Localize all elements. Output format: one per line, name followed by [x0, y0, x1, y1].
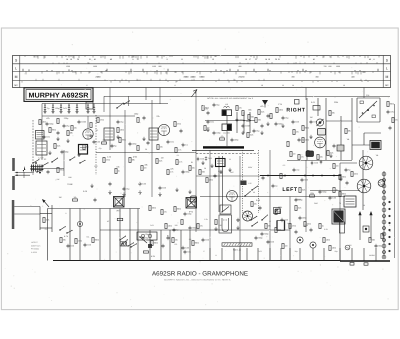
note text line	[207, 97, 253, 100]
subtitle murphy radio ltd	[164, 278, 232, 281]
value label 33k	[144, 164, 147, 167]
wire dial drop 2	[145, 88, 147, 101]
capacitor C15	[47, 170, 50, 174]
ground GC2	[51, 110, 54, 114]
wire grid bus	[42, 115, 135, 117]
svg-text:47k: 47k	[220, 135, 223, 138]
svg-text:0.01: 0.01	[187, 251, 191, 254]
electrolytic C53	[77, 221, 82, 226]
capacitor C64	[111, 144, 118, 148]
switch S2a	[32, 159, 39, 164]
resistor R82	[333, 164, 339, 169]
capacitor C32	[387, 110, 395, 114]
gang dashed vertical 1	[242, 150, 244, 213]
svg-text:2.2k: 2.2k	[107, 155, 111, 158]
resistor R10	[115, 169, 120, 174]
svg-text:2.2k: 2.2k	[310, 152, 314, 155]
svg-text:500p: 500p	[278, 123, 282, 126]
band letters left	[14, 59, 18, 87]
capacitor C88	[189, 226, 197, 230]
svg-text:47k: 47k	[46, 117, 49, 120]
wire speaker to circuit	[14, 207, 40, 231]
value label 47k	[170, 168, 173, 171]
capacitor C46	[267, 240, 274, 244]
svg-text:14: 14	[292, 84, 294, 87]
capacitor C23	[261, 124, 264, 128]
resistor R30	[290, 152, 296, 157]
svg-text:C30: C30	[218, 224, 221, 227]
resistor R86	[310, 192, 315, 197]
junction J3	[249, 120, 251, 122]
value label V4	[376, 154, 379, 157]
svg-text:1300: 1300	[93, 65, 97, 68]
resistor R55	[92, 238, 99, 243]
svg-text:0.01: 0.01	[208, 157, 212, 160]
capacitor C74	[253, 129, 261, 133]
svg-text:6: 6	[87, 84, 88, 87]
AC source symbol	[345, 245, 350, 250]
valve V3 IF amplifier	[227, 191, 238, 202]
tuning gang bar	[203, 146, 244, 148]
capacitor C36	[346, 181, 349, 185]
resistor R8	[57, 168, 64, 173]
value label 470k	[278, 206, 282, 209]
svg-text:C2: C2	[52, 104, 54, 107]
valve base V4 base	[359, 156, 373, 170]
svg-text:330p: 330p	[378, 245, 382, 248]
svg-text:470k: 470k	[78, 240, 82, 243]
capacitor C83	[237, 218, 240, 222]
resistor R91	[319, 224, 324, 229]
resistor R61	[49, 128, 56, 133]
svg-text:GRAM: GRAM	[295, 198, 301, 201]
svg-text:33k: 33k	[144, 164, 147, 167]
wire switch riser	[63, 150, 65, 176]
svg-text:330p: 330p	[185, 171, 189, 174]
svg-text:820k: 820k	[177, 208, 181, 211]
svg-text:0.1: 0.1	[185, 144, 188, 147]
svg-text:820k: 820k	[154, 242, 158, 245]
switch S13	[79, 160, 85, 164]
svg-text:25: 25	[269, 220, 271, 223]
capacitor C90	[184, 250, 191, 254]
svg-text:56k: 56k	[248, 109, 251, 112]
value label 100p	[134, 112, 139, 115]
capacitor C87	[173, 228, 180, 232]
wire far-right frame	[357, 98, 380, 122]
svg-text:820k: 820k	[305, 127, 309, 130]
ground GC1	[43, 110, 46, 114]
IF transformer L2	[36, 141, 47, 155]
svg-text:PR 55032: PR 55032	[31, 248, 39, 251]
svg-text:500p: 500p	[322, 191, 326, 194]
top right box diagonal	[359, 101, 377, 118]
capacitor C22	[242, 124, 250, 128]
value label 1M	[310, 116, 313, 119]
resistor R66	[102, 139, 107, 144]
oscillator can dark border	[216, 159, 226, 167]
resistor R11	[129, 158, 135, 163]
valve base V5 base	[357, 179, 371, 193]
ground GC4	[67, 110, 70, 114]
svg-text:M: M	[15, 75, 18, 79]
svg-text:L: L	[386, 66, 388, 70]
value label 4.7k	[64, 235, 68, 238]
wire C3 stub	[60, 104, 62, 112]
capacitor C67	[167, 140, 174, 144]
resistor R5	[117, 128, 124, 133]
resistor R93	[181, 220, 183, 225]
screen partition bar upper	[12, 158, 15, 171]
resistor R96	[73, 196, 78, 201]
svg-text:47k: 47k	[239, 107, 242, 110]
svg-text:470k: 470k	[100, 119, 104, 122]
svg-text:220p: 220p	[234, 139, 238, 142]
wire C5 stub	[76, 104, 78, 112]
value label 22k	[156, 115, 159, 118]
resistor R83	[351, 172, 358, 177]
svg-text:560: 560	[372, 239, 375, 242]
wire dial drop 3	[159, 88, 161, 105]
capacitor C73	[231, 138, 239, 142]
ground G9	[206, 128, 209, 132]
value label 0.05	[256, 199, 261, 202]
svg-text:100k: 100k	[354, 173, 358, 176]
svg-text:0.005: 0.005	[245, 125, 250, 128]
dial ticks longwave row	[23, 65, 378, 71]
ground G11	[260, 131, 263, 135]
svg-text:250: 250	[349, 244, 352, 247]
svg-text:TONE: TONE	[67, 183, 73, 186]
section label LEFT	[282, 187, 298, 193]
resistor R94	[197, 224, 203, 229]
capacitor C61	[61, 150, 69, 154]
svg-text:LEFT: LEFT	[282, 187, 298, 193]
svg-text:1k: 1k	[322, 225, 324, 228]
resistor R20	[206, 178, 213, 183]
blob component	[148, 244, 152, 248]
switch S3a	[244, 191, 250, 197]
svg-text:0.02: 0.02	[314, 162, 318, 165]
svg-text:1M: 1M	[207, 127, 210, 130]
resistor R15	[242, 111, 244, 116]
gang dash link	[196, 152, 258, 154]
svg-text:15k: 15k	[175, 239, 178, 242]
power section wires	[48, 209, 377, 261]
ground G23	[188, 190, 191, 194]
resistor R54	[75, 239, 82, 244]
switch S4	[261, 215, 268, 221]
svg-text:0.01: 0.01	[210, 121, 214, 124]
svg-text:0.5: 0.5	[283, 164, 286, 167]
heavy af bus	[260, 175, 341, 177]
svg-text:900: 900	[159, 65, 162, 68]
wire dial drop 4	[305, 88, 307, 101]
capacitor C89	[167, 236, 170, 240]
wire x306 column	[305, 160, 307, 232]
switch S6	[119, 236, 126, 241]
wire left lower	[40, 205, 52, 232]
svg-text:10k: 10k	[320, 156, 323, 159]
svg-text:470k: 470k	[278, 206, 282, 209]
capacitor C21	[207, 120, 214, 124]
svg-text:2.2k: 2.2k	[46, 219, 50, 222]
value label 6.3V	[151, 255, 156, 258]
capacitor C44	[202, 238, 209, 242]
coil arc L10 top	[224, 103, 230, 108]
svg-text:68k: 68k	[86, 146, 89, 149]
resistor R38	[275, 210, 281, 215]
svg-text:120k: 120k	[279, 109, 283, 112]
wire right block verticals	[307, 98, 352, 160]
gram motor bus	[48, 208, 141, 210]
value label C20	[204, 108, 209, 111]
wire sockets link	[340, 150, 363, 210]
capacitor C16	[109, 182, 112, 186]
voltage adjust arrow 2	[369, 211, 372, 240]
value label V1	[96, 129, 99, 132]
mains switch	[139, 236, 147, 243]
svg-text:0.05: 0.05	[87, 244, 91, 247]
value label 0.1	[175, 243, 179, 246]
svg-text:1M: 1M	[310, 116, 313, 119]
wire centre column x196	[195, 92, 197, 232]
aerial arrow	[192, 90, 198, 98]
svg-text:390k: 390k	[342, 193, 346, 196]
svg-text:390k: 390k	[52, 129, 56, 132]
svg-text:220p: 220p	[302, 217, 306, 220]
ground G4	[142, 137, 145, 141]
amendment note block	[31, 241, 40, 254]
svg-text:700: 700	[324, 65, 327, 68]
capacitor C92	[197, 157, 204, 161]
svg-text:1M: 1M	[285, 245, 288, 248]
ground G24	[266, 122, 269, 126]
svg-text:0.02: 0.02	[150, 224, 154, 227]
resistor R90	[304, 222, 311, 227]
capacitor C42	[162, 244, 165, 248]
svg-text:MURPHY RADIO LTD., WELWYN GARD: MURPHY RADIO LTD., WELWYN GARDEN CITY, H…	[164, 278, 232, 281]
svg-text:2.2k: 2.2k	[330, 152, 334, 155]
wire x290 column	[289, 197, 291, 261]
wire ift columns	[237, 112, 250, 133]
gang dashed vertical 2	[258, 150, 260, 213]
svg-text:120k: 120k	[305, 139, 309, 142]
svg-text:820k: 820k	[390, 103, 394, 106]
svg-text:C1: C1	[44, 104, 46, 107]
wire x240 column	[239, 156, 241, 261]
resistor R69	[157, 145, 163, 150]
svg-text:500p: 500p	[55, 107, 59, 110]
ground G20	[48, 151, 51, 155]
svg-text:220k: 220k	[334, 101, 338, 104]
resistor R24	[329, 111, 335, 116]
capacitor C81	[295, 198, 303, 202]
resistor R13	[156, 159, 162, 164]
wire C6 stub	[87, 104, 89, 112]
svg-text:50: 50	[237, 220, 239, 223]
svg-text:47k: 47k	[200, 225, 203, 228]
svg-text:22k: 22k	[156, 115, 159, 118]
resistor R62	[54, 144, 60, 149]
capacitor C13	[143, 116, 146, 120]
capacitor C28	[310, 120, 317, 124]
svg-text:0.02: 0.02	[270, 241, 274, 244]
value label V4	[347, 138, 350, 141]
switch S3b	[251, 186, 258, 191]
capacitor C96	[320, 160, 322, 164]
svg-text:MC: MC	[385, 84, 389, 87]
wire mid bus y196	[200, 196, 345, 198]
resistor R34	[327, 151, 333, 156]
capacitor C34	[293, 168, 300, 172]
svg-text:68k: 68k	[70, 132, 73, 135]
coil can L3 dark border	[79, 145, 88, 155]
svg-text:A692SR RADIO - GRAMOPHONE: A692SR RADIO - GRAMOPHONE	[152, 271, 248, 278]
IF transformer can L12	[222, 124, 232, 131]
switch S7	[127, 242, 134, 246]
resistor R6	[137, 118, 139, 123]
svg-text:800: 800	[239, 65, 242, 68]
switch gang dashed line	[32, 120, 34, 176]
wire x340 column	[339, 163, 341, 261]
svg-text:LATEST: LATEST	[31, 241, 39, 244]
capacitor C85	[295, 230, 298, 234]
value label 25µ	[145, 233, 149, 236]
resistor R77	[247, 133, 253, 138]
ground G21	[77, 153, 80, 157]
resistor R64	[83, 145, 89, 150]
antenna symbol centre	[262, 100, 268, 108]
wire pickup to circuit	[15, 172, 34, 176]
tone switch icon	[295, 100, 300, 105]
wire column x152	[151, 100, 153, 197]
small box top-left	[86, 102, 93, 109]
resistor R31	[298, 155, 304, 160]
resistor R39	[295, 206, 301, 211]
value label IFT2	[189, 210, 194, 213]
svg-text:15k: 15k	[160, 146, 163, 149]
capacitor C45	[255, 236, 263, 240]
switch S1a	[116, 103, 123, 109]
scan speckle noise	[5, 31, 396, 307]
ground G1	[56, 137, 59, 141]
capacitor C91	[94, 198, 97, 202]
capacitor C5	[76, 106, 78, 110]
svg-text:4.7k: 4.7k	[178, 149, 182, 152]
pickup arrow	[42, 199, 49, 207]
svg-text:1M: 1M	[59, 196, 62, 199]
svg-text:10k: 10k	[73, 196, 76, 199]
svg-text:8: 8	[288, 222, 289, 225]
svg-text:465: 465	[119, 202, 122, 205]
ground G7	[138, 190, 141, 194]
svg-text:1.5k: 1.5k	[204, 218, 207, 221]
value label C25	[218, 170, 223, 173]
ground GC6	[86, 110, 89, 114]
capacitor C63	[93, 140, 100, 144]
svg-text:C4: C4	[68, 104, 70, 107]
svg-text:2.2k: 2.2k	[278, 229, 282, 232]
switch box S10	[220, 205, 231, 214]
svg-text:470k: 470k	[292, 225, 296, 228]
svg-text:P.U.: P.U.	[366, 94, 370, 97]
switch S2b	[41, 162, 48, 166]
capacitor C93	[205, 156, 212, 160]
svg-text:560: 560	[258, 119, 261, 122]
dial scale row line 3	[13, 80, 391, 82]
capacitor C31	[333, 144, 336, 148]
switch S2c	[51, 158, 58, 163]
resistor R52	[381, 234, 383, 239]
svg-text:470k: 470k	[106, 159, 110, 162]
rounded box left	[191, 196, 197, 202]
svg-text:330k: 330k	[248, 166, 252, 169]
resistor R70	[175, 148, 181, 153]
wire dial drop 5	[363, 88, 365, 99]
svg-text:220k: 220k	[342, 176, 346, 179]
svg-text:1100: 1100	[152, 65, 156, 68]
capacitor C68	[182, 143, 188, 147]
svg-text:120k: 120k	[168, 225, 172, 228]
svg-text:RIGHT: RIGHT	[286, 108, 305, 114]
wire t1 link	[352, 133, 381, 145]
ground G15	[329, 154, 332, 158]
valve V2 oscillator	[158, 124, 169, 135]
ground G2	[66, 139, 69, 143]
IF transformer L5	[149, 128, 158, 140]
svg-text:NOTE: ALL VALUES AS AMENDMENT: NOTE: ALL VALUES AS AMENDMENT No 5	[207, 97, 253, 100]
svg-text:500p: 500p	[64, 151, 68, 154]
svg-text:4.7k: 4.7k	[170, 171, 174, 174]
svg-text:1M: 1M	[293, 153, 296, 156]
svg-text:120k: 120k	[326, 239, 330, 242]
capacitor C71	[236, 118, 244, 122]
svg-text:47k: 47k	[164, 211, 167, 214]
resistor R92	[165, 224, 172, 229]
resistor R49	[323, 238, 330, 243]
capacitor C24	[275, 122, 283, 126]
resistor R53	[60, 238, 66, 243]
svg-text:2.2k: 2.2k	[57, 145, 61, 148]
wire x210 column	[209, 150, 211, 261]
dial scale left band-letter cell	[19, 56, 21, 88]
resistor R48	[282, 244, 288, 249]
switch S12	[69, 156, 75, 160]
svg-text:16µ: 16µ	[294, 250, 297, 253]
small box component	[276, 209, 281, 214]
af bus end ground	[339, 176, 343, 181]
capacitor C14	[180, 129, 183, 133]
svg-text:500p: 500p	[264, 233, 268, 236]
voltage adjust arrow 1	[358, 211, 361, 240]
svg-text:C6: C6	[87, 104, 89, 107]
capacitor C3	[60, 106, 67, 110]
svg-text:820k: 820k	[95, 239, 99, 242]
resistor R88	[265, 224, 271, 229]
svg-text:600: 600	[329, 65, 332, 68]
value label 470k	[133, 155, 137, 158]
wire C7 stub	[93, 104, 95, 112]
capacitor C7	[93, 106, 95, 110]
svg-text:120k: 120k	[310, 192, 314, 195]
ground G14	[309, 135, 312, 139]
capacitor C65	[129, 142, 137, 146]
wire left-ch bus	[287, 160, 352, 162]
svg-text:68k: 68k	[348, 130, 351, 133]
svg-text:LW: LW	[57, 178, 60, 181]
resistor R74	[236, 106, 242, 111]
